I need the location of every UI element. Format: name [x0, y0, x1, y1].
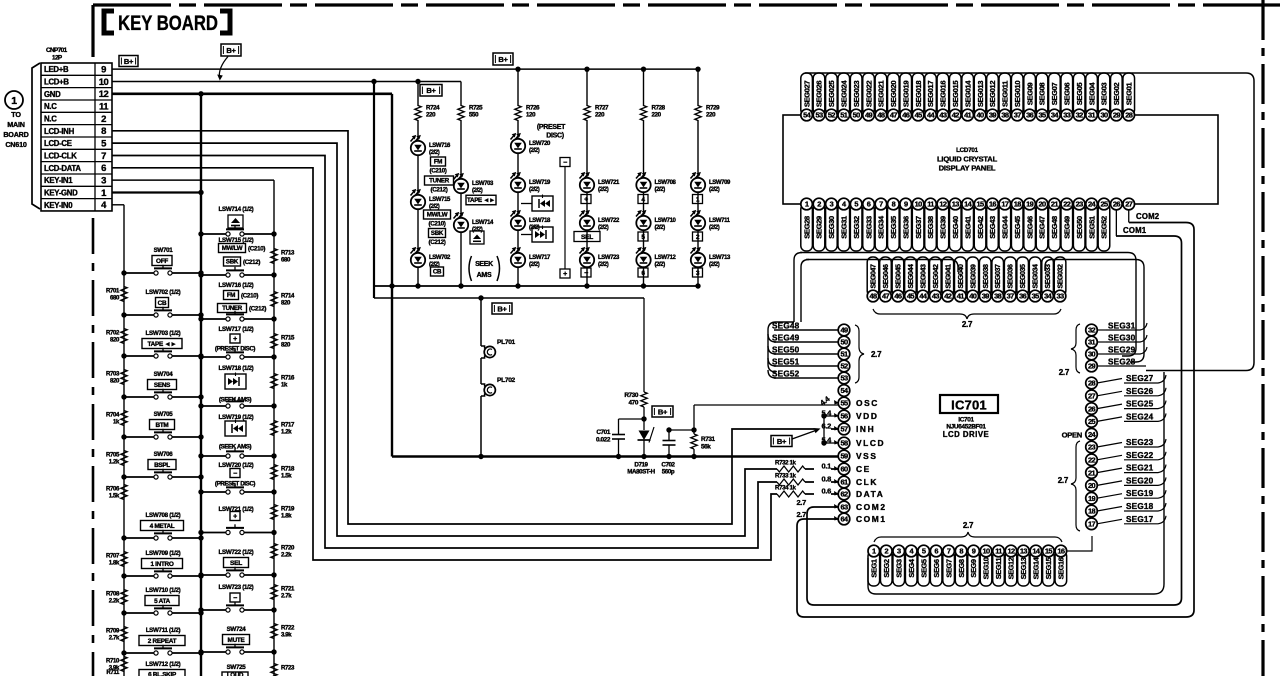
svg-text:35: 35 [1038, 111, 1046, 120]
svg-text:1.8k: 1.8k [281, 513, 292, 520]
B+ label above LED array [493, 53, 513, 65]
svg-text:C701: C701 [596, 429, 611, 436]
svg-text:SEG15: SEG15 [1044, 557, 1053, 579]
svg-text:SEG32: SEG32 [852, 216, 861, 239]
svg-text:SEG51: SEG51 [772, 358, 800, 367]
svg-text:220: 220 [595, 112, 605, 119]
resistor R702 [121, 329, 127, 344]
svg-text:B+: B+ [497, 304, 507, 313]
svg-text:R717: R717 [281, 422, 295, 429]
LED LSW703 [460, 120, 462, 178]
svg-text:20: 20 [1038, 200, 1046, 209]
svg-text:SEG017: SEG017 [926, 81, 935, 107]
resistor R709 [121, 627, 127, 642]
svg-text:R709: R709 [106, 628, 120, 635]
svg-text:R722: R722 [281, 625, 295, 632]
svg-text:37: 37 [1014, 111, 1022, 120]
svg-text:SEG07: SEG07 [1050, 83, 1059, 106]
svg-text:40: 40 [977, 111, 985, 120]
LSW714 eject icon [228, 215, 243, 228]
svg-text:6: 6 [867, 200, 871, 209]
svg-text:4 METAL: 4 METAL [150, 523, 175, 530]
svg-text:R732 1k: R732 1k [775, 460, 797, 467]
svg-text:MAIN: MAIN [7, 120, 25, 129]
svg-text:SEG52: SEG52 [772, 370, 800, 379]
svg-text:LSW710 (1/2): LSW710 (1/2) [146, 587, 181, 594]
svg-text:SEG40: SEG40 [951, 216, 960, 239]
LSW717 + PRESET DISC [230, 334, 240, 343]
svg-text:55: 55 [840, 399, 848, 408]
svg-text:SEG11: SEG11 [994, 558, 1003, 580]
svg-text:41: 41 [964, 111, 972, 120]
resistor R733 1k [777, 479, 805, 485]
wire LCD-CLK [112, 155, 777, 548]
svg-text:7: 7 [101, 151, 106, 162]
svg-text:22: 22 [1088, 455, 1096, 464]
svg-text:9: 9 [101, 65, 106, 76]
svg-text:SEG30: SEG30 [827, 216, 836, 239]
svg-text:R728: R728 [652, 105, 666, 112]
svg-text:OPEN: OPEN [1062, 431, 1082, 440]
LSW720 - PRESET DISC [230, 469, 240, 478]
svg-text:LCD+B: LCD+B [44, 77, 69, 86]
svg-text:51: 51 [840, 111, 848, 120]
svg-text:SEG50: SEG50 [1075, 216, 1084, 239]
svg-text:R726: R726 [526, 105, 540, 112]
svg-text:SEG13: SEG13 [1019, 557, 1028, 579]
svg-text:LSW720: LSW720 [529, 141, 551, 147]
resistor R705 [121, 451, 127, 466]
brace 2.7 left pins [855, 325, 864, 383]
label + col4 [581, 195, 591, 204]
svg-text:VLCD: VLCD [856, 438, 885, 448]
svg-text:59: 59 [840, 452, 848, 461]
svg-text:R716: R716 [281, 375, 295, 382]
label FM C210 TUNER C212 [431, 157, 446, 166]
svg-text:MW/LW: MW/LW [427, 212, 448, 219]
svg-text:18: 18 [1088, 507, 1096, 516]
label CB [431, 267, 444, 276]
svg-text:COM2: COM2 [1136, 212, 1160, 221]
svg-text:(2/2): (2/2) [709, 187, 720, 193]
svg-text:LSW719 (1/2): LSW719 (1/2) [219, 414, 254, 421]
svg-text:42: 42 [952, 111, 960, 120]
svg-text:(2/2): (2/2) [655, 262, 666, 268]
svg-text:SEL: SEL [581, 234, 593, 241]
resistor R703 [121, 370, 127, 385]
LED LSW715 [417, 156, 419, 194]
svg-text:16: 16 [989, 200, 997, 209]
svg-text:16: 16 [1057, 547, 1065, 556]
label TAPE [466, 195, 496, 205]
svg-text:(2/2): (2/2) [472, 227, 483, 233]
svg-text:1 INTRO: 1 INTRO [150, 561, 173, 568]
svg-text:FM: FM [434, 159, 442, 166]
svg-text:LSW715: LSW715 [429, 197, 451, 203]
svg-text:9: 9 [904, 200, 908, 209]
svg-text:R705: R705 [106, 452, 120, 459]
svg-text:49: 49 [840, 326, 848, 335]
LSW716 FM TUNER labels [224, 291, 239, 300]
rail junction dots [616, 454, 621, 459]
svg-text:2.7: 2.7 [871, 350, 882, 359]
svg-text:(PRESET DISC): (PRESET DISC) [215, 346, 256, 353]
label 4 col5 [638, 195, 648, 204]
svg-text:60: 60 [840, 465, 848, 474]
lamp feed vertical [480, 298, 482, 346]
svg-text:22: 22 [1063, 200, 1071, 209]
svg-text:SEG29: SEG29 [1108, 346, 1136, 355]
svg-text:63: 63 [840, 503, 848, 512]
svg-text:SEG022: SEG022 [864, 81, 873, 107]
svg-text:R708: R708 [106, 591, 120, 598]
svg-text:13: 13 [952, 200, 960, 209]
resistor R704 [121, 411, 127, 426]
svg-text:2: 2 [101, 114, 106, 125]
preset disc indicator line [564, 167, 566, 270]
LSW715 MW/LW SBK labels [219, 244, 246, 253]
svg-text:LSW718 (1/2): LSW718 (1/2) [219, 365, 254, 372]
svg-text:R704: R704 [106, 412, 120, 419]
LED LSW721 [586, 120, 588, 177]
svg-text:CLK: CLK [856, 477, 878, 487]
svg-text:SEG039: SEG039 [970, 264, 977, 289]
svg-text:LCD-DATA: LCD-DATA [44, 164, 81, 173]
svg-text:CE: CE [856, 464, 871, 474]
wire KEY-IN1 [112, 179, 274, 181]
svg-text:(C212): (C212) [428, 239, 445, 246]
svg-text:12P: 12P [52, 55, 63, 62]
svg-text:SW701: SW701 [154, 247, 174, 254]
svg-text:SEG24: SEG24 [1126, 412, 1154, 421]
IC701 right pins 23-17 SEG23-SEG17 [1086, 441, 1098, 453]
svg-text:40: 40 [969, 292, 977, 301]
resistor R727 [586, 69, 588, 106]
svg-text:CNP701: CNP701 [46, 47, 68, 54]
svg-text:R730: R730 [624, 392, 639, 399]
svg-text:(2/2): (2/2) [598, 187, 609, 193]
svg-text:R727: R727 [595, 105, 609, 112]
svg-text:KEY-IN0: KEY-IN0 [44, 201, 73, 210]
svg-text:SEG04: SEG04 [1087, 82, 1096, 106]
svg-text:SEG045: SEG045 [895, 264, 902, 289]
LED LSW716 [417, 120, 419, 140]
svg-text:R711: R711 [106, 669, 120, 676]
dash-dot top border [93, 3, 1280, 6]
svg-text:1k: 1k [113, 419, 120, 426]
svg-text:(C212): (C212) [430, 187, 447, 194]
LED LSW718 [517, 193, 519, 215]
svg-text:SEG046: SEG046 [883, 264, 890, 289]
LED LSW702 [417, 210, 419, 252]
voltage 0.6 [814, 487, 831, 496]
svg-text:0.6: 0.6 [821, 487, 831, 496]
svg-text:LSW710: LSW710 [655, 218, 677, 224]
bus wrap around IC bottom pins [868, 372, 1164, 594]
resistor R731 56k [691, 434, 697, 449]
svg-text:SEG34: SEG34 [877, 215, 886, 239]
svg-text:23: 23 [1076, 200, 1084, 209]
wire LED+B / B+ rail to LED array [112, 68, 698, 70]
svg-text:46: 46 [894, 292, 902, 301]
B+ label on LED+B wire [119, 56, 138, 67]
svg-text:LSW714 (1/2): LSW714 (1/2) [219, 206, 254, 213]
IC701 bottom pins 1-16 with labels SEG01-SEG16 [868, 551, 880, 586]
svg-text:R710: R710 [106, 658, 120, 665]
wire GND [112, 93, 392, 96]
svg-text:−: − [233, 471, 237, 478]
B+ label at R724 column [420, 85, 442, 97]
svg-text:SEL: SEL [230, 560, 242, 567]
svg-text:SEG042: SEG042 [933, 264, 940, 289]
svg-text:SEG19: SEG19 [1126, 489, 1154, 498]
svg-text:LSW722: LSW722 [598, 218, 620, 224]
svg-text:550: 550 [469, 112, 479, 119]
wire COM1 loop [797, 223, 1194, 618]
svg-text:6: 6 [101, 163, 106, 174]
svg-text:15: 15 [977, 200, 985, 209]
svg-text:SEG040: SEG040 [958, 264, 965, 289]
svg-text:LSW708: LSW708 [655, 180, 677, 186]
svg-text:SEG013: SEG013 [976, 81, 985, 107]
svg-text:6: 6 [934, 547, 938, 556]
IC701 big label [940, 395, 998, 413]
resistor R728 [643, 69, 645, 106]
svg-text:SEG21: SEG21 [1126, 464, 1154, 473]
svg-text:1: 1 [872, 547, 876, 556]
svg-text:2.2k: 2.2k [109, 598, 120, 605]
resistor R706 [121, 485, 127, 500]
svg-text:SEG28: SEG28 [1108, 358, 1136, 367]
svg-text:COM2: COM2 [856, 502, 887, 512]
svg-text:50: 50 [840, 338, 848, 347]
svg-text:19: 19 [1088, 494, 1096, 503]
svg-text:R733 1k: R733 1k [775, 473, 797, 480]
svg-text:120: 120 [526, 112, 536, 119]
svg-text:LSW703 (1/2): LSW703 (1/2) [146, 330, 181, 337]
svg-text:SEG10: SEG10 [982, 557, 991, 579]
svg-text:2 REPEAT: 2 REPEAT [148, 638, 177, 645]
svg-text:SEG50: SEG50 [772, 346, 800, 355]
svg-text:SEG52: SEG52 [1100, 216, 1109, 239]
svg-text:LSW709: LSW709 [709, 180, 731, 186]
B+ label with arrow to LCD+B wire [221, 44, 241, 56]
svg-text:+: + [233, 336, 237, 343]
svg-text:SEG011: SEG011 [1001, 80, 1010, 107]
svg-text:LSW716 (1/2): LSW716 (1/2) [219, 282, 254, 289]
svg-text:SEG30: SEG30 [1108, 334, 1136, 343]
svg-text:SW704: SW704 [154, 371, 174, 378]
svg-text:2.7: 2.7 [962, 320, 973, 329]
svg-text:23: 23 [1088, 443, 1096, 452]
LSW718 FF icon SEEK AMS [225, 374, 246, 389]
svg-text:35: 35 [1032, 292, 1040, 301]
wire OSC [693, 405, 695, 430]
svg-text:820: 820 [281, 342, 291, 349]
svg-text:LSW702 (1/2): LSW702 (1/2) [146, 289, 181, 296]
label FF icon col3 [521, 234, 532, 236]
brace 2.7 right upper [1071, 324, 1080, 373]
label - col4 [581, 268, 591, 277]
svg-text:SEG39: SEG39 [939, 216, 948, 239]
svg-text:19: 19 [1026, 200, 1034, 209]
svg-text:LSW714: LSW714 [472, 220, 494, 226]
svg-text:LCD-INH: LCD-INH [44, 127, 75, 136]
GND rail bottom [392, 455, 838, 457]
svg-text:SEG47: SEG47 [1038, 216, 1047, 239]
svg-text:BOARD: BOARD [3, 130, 28, 139]
svg-text:SEG8: SEG8 [957, 559, 966, 577]
svg-text:53: 53 [840, 374, 848, 383]
svg-text:SEG38: SEG38 [926, 216, 935, 239]
svg-text:LSW712: LSW712 [655, 255, 677, 261]
svg-text:B+: B+ [658, 407, 668, 416]
svg-text:R707: R707 [106, 553, 120, 560]
svg-text:(2/2): (2/2) [429, 150, 440, 156]
svg-text:SEG22: SEG22 [1126, 451, 1154, 460]
svg-text:GND: GND [44, 90, 61, 99]
svg-text:R720: R720 [281, 545, 295, 552]
svg-text:27: 27 [1088, 391, 1096, 400]
LED LSW713 [697, 231, 699, 252]
svg-text:11: 11 [99, 102, 109, 113]
svg-text:SEG033: SEG033 [1045, 264, 1052, 289]
resistor R707 [121, 552, 127, 567]
label 1 col6 [693, 195, 703, 204]
svg-text:220: 220 [652, 112, 662, 119]
LSW722 SEL label [224, 558, 249, 568]
svg-text:42: 42 [944, 292, 952, 301]
svg-text:(C210): (C210) [241, 293, 258, 300]
svg-text:SEG038: SEG038 [983, 264, 990, 289]
svg-text:SEG020: SEG020 [889, 81, 898, 107]
svg-text:SEG3: SEG3 [894, 559, 903, 577]
svg-text:SEG1: SEG1 [869, 559, 878, 577]
svg-text:3.9k: 3.9k [281, 632, 292, 639]
svg-text:0.1: 0.1 [821, 462, 831, 471]
svg-text:R725: R725 [469, 105, 483, 112]
svg-text:48: 48 [869, 292, 877, 301]
svg-text:LSW719: LSW719 [529, 180, 551, 186]
label 2 col6 [693, 232, 703, 241]
svg-text:53: 53 [815, 111, 823, 120]
svg-text:2: 2 [885, 547, 889, 556]
B+ wire across top to SEG28 row [805, 73, 1254, 371]
svg-text:36: 36 [1026, 111, 1034, 120]
svg-text:R703: R703 [106, 371, 120, 378]
wire KEY-GND [112, 191, 201, 193]
voltage arrows [834, 400, 839, 405]
svg-text:SEG16: SEG16 [1057, 557, 1066, 579]
IC701 right pins 28-25 SEG27-SEG24 [1086, 377, 1098, 389]
svg-text:LSW716: LSW716 [429, 143, 451, 149]
svg-text:TUNER: TUNER [429, 178, 450, 185]
IC701 right pins 32-29 SEG31-SEG28 [1086, 324, 1098, 336]
svg-text:SEG35: SEG35 [889, 215, 898, 239]
svg-text:32: 32 [1076, 111, 1084, 120]
svg-text:R729: R729 [706, 105, 720, 112]
svg-text:820: 820 [110, 378, 120, 385]
svg-text:LSW703: LSW703 [472, 181, 494, 187]
svg-text:220: 220 [426, 112, 436, 119]
svg-text:SEG33: SEG33 [864, 216, 873, 239]
svg-text:TUNER: TUNER [222, 305, 243, 312]
svg-text:7: 7 [879, 200, 883, 209]
IC701 right pin 24 OPEN [1086, 428, 1098, 440]
svg-text:SW725: SW725 [227, 664, 247, 671]
resistor R722 [271, 624, 277, 639]
svg-text:31: 31 [1088, 338, 1096, 347]
resistor R720 [271, 544, 277, 559]
svg-text:R701: R701 [106, 288, 120, 295]
svg-text:TAPE ◄►: TAPE ◄► [467, 197, 495, 204]
resistor R724 [417, 81, 419, 106]
svg-text:LSW718: LSW718 [529, 218, 551, 224]
svg-text:SEG019: SEG019 [901, 81, 910, 107]
svg-text:3: 3 [897, 547, 901, 556]
LED LSW708 [643, 120, 645, 177]
svg-text:SEG36: SEG36 [901, 216, 910, 239]
svg-text:36: 36 [1019, 292, 1027, 301]
LSW723 - label [230, 593, 240, 602]
svg-text:DISPLAY PANEL: DISPLAY PANEL [939, 164, 996, 173]
svg-text:29: 29 [1088, 362, 1096, 371]
svg-text:21: 21 [1088, 468, 1096, 477]
svg-text:B+: B+ [226, 46, 236, 55]
LED array bottom rail [374, 285, 698, 287]
svg-text:−: − [563, 160, 567, 167]
svg-text:61: 61 [840, 478, 848, 487]
svg-text:R714: R714 [281, 293, 295, 300]
svg-text:11: 11 [927, 200, 934, 209]
voltage 5.4 [814, 436, 831, 445]
svg-text:46: 46 [902, 111, 910, 120]
wire LCD+B [112, 80, 461, 82]
wire KEY-IN0 [112, 204, 124, 206]
svg-text:12: 12 [1007, 547, 1015, 556]
svg-text:SEG42: SEG42 [976, 216, 985, 239]
svg-text:B+: B+ [124, 57, 134, 66]
svg-text:SEG51: SEG51 [1087, 215, 1096, 239]
svg-text:SEG23: SEG23 [1126, 438, 1154, 447]
svg-text:(SEEK AMS): (SEEK AMS) [219, 444, 252, 451]
svg-text:TAPE ◄►: TAPE ◄► [148, 341, 177, 348]
voltage 0.1 [814, 462, 831, 471]
svg-text:SEG41: SEG41 [963, 215, 972, 239]
connector bracket [32, 63, 40, 209]
svg-text:CN610: CN610 [5, 140, 27, 149]
svg-text:52: 52 [828, 111, 836, 120]
svg-text:R718: R718 [281, 466, 295, 473]
lamp PL702 [481, 384, 485, 387]
svg-text:6.2: 6.2 [821, 422, 831, 431]
diode D719 MA80ST-H [643, 419, 645, 430]
svg-text:LSW713: LSW713 [709, 255, 731, 261]
svg-text:R721: R721 [281, 586, 295, 593]
svg-text:SEG4: SEG4 [907, 558, 916, 577]
svg-text:48: 48 [877, 111, 885, 120]
svg-text:12: 12 [939, 200, 947, 209]
svg-text:49: 49 [865, 111, 873, 120]
svg-text:LSW708 (1/2): LSW708 (1/2) [146, 512, 181, 519]
resistor R718 [271, 465, 277, 480]
svg-text:OSC: OSC [856, 398, 879, 408]
svg-text:0.022: 0.022 [596, 437, 611, 444]
svg-text:5: 5 [922, 547, 926, 556]
svg-text:R719: R719 [281, 506, 295, 513]
svg-text:LSW709 (1/2): LSW709 (1/2) [146, 550, 181, 557]
svg-text:SEG49: SEG49 [772, 334, 800, 343]
